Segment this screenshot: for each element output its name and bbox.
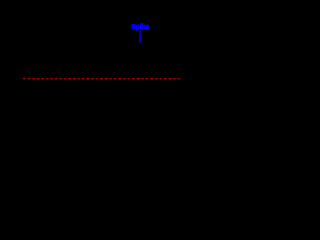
threshold dashed line (23, 78, 182, 80)
annotation arrow line (139, 31, 141, 44)
svg-text:Spike: Spike (131, 24, 149, 31)
